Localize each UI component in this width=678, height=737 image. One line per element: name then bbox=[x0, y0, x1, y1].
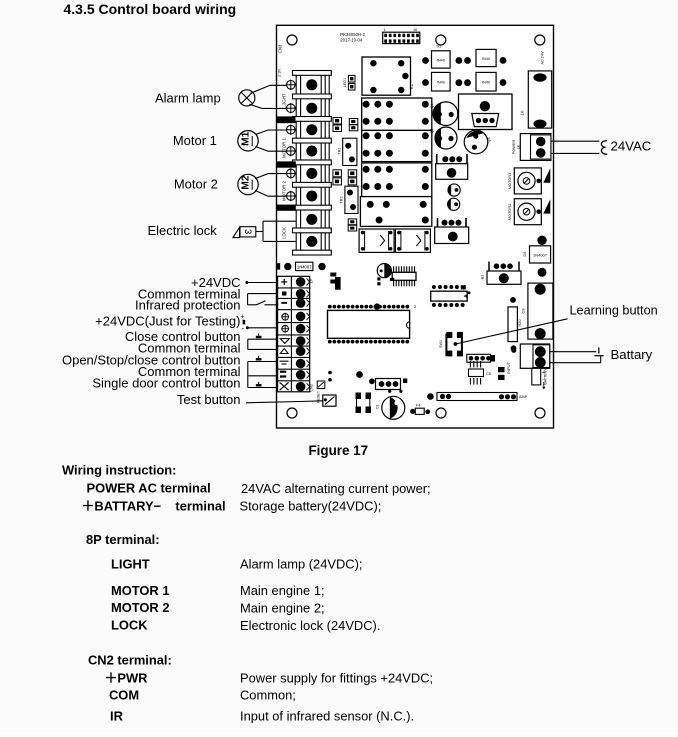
bridge diode D1 bbox=[422, 45, 450, 69]
wire lamp to terminal 1 bbox=[251, 85, 287, 93]
terminal 8P pin 3 screw bbox=[286, 125, 296, 135]
svg-text:C3: C3 bbox=[376, 405, 380, 410]
separator bar MOTOR2/LOCK bbox=[277, 205, 296, 211]
svg-text:TR2: TR2 bbox=[340, 196, 344, 203]
transistor Q6 bbox=[377, 264, 391, 286]
svg-text:POWER: POWER bbox=[511, 139, 516, 154]
svg-text:Input of infrared sensor (N.C.: Input of infrared sensor (N.C.). bbox=[240, 709, 414, 724]
terminal 8P pin 3 wire hole bbox=[306, 124, 317, 135]
svg-text:1P: 1P bbox=[308, 278, 313, 283]
wire single door button bbox=[248, 382, 278, 388]
svg-text:C5: C5 bbox=[486, 372, 491, 376]
svg-text:BATTERY: BATTERY bbox=[544, 368, 548, 385]
fuse F2 bbox=[523, 236, 551, 277]
terminal CN2 pin 10 bbox=[296, 382, 306, 392]
IC U2 bbox=[431, 285, 471, 307]
separator bar LIGHT/MOTOR1 bbox=[277, 116, 296, 123]
terminal 8P pin 8 wire hole bbox=[306, 236, 317, 247]
svg-text:＋BATTARY− terminal: ＋BATTARY− terminal bbox=[82, 498, 226, 513]
svg-text:B2: B2 bbox=[481, 275, 485, 280]
CN2 symbol screw2 bbox=[281, 325, 289, 333]
bridge diode D3 bbox=[422, 72, 450, 91]
terminal block 8P body bbox=[293, 71, 332, 256]
transistor Q2 bbox=[430, 127, 457, 149]
node 24VAC brace bbox=[601, 141, 607, 155]
terminal CN2 pin 9 bbox=[296, 370, 306, 380]
svg-text:+24VDC(Just for Testing): +24VDC(Just for Testing) bbox=[95, 314, 240, 329]
svg-text:Electric lock: Electric lock bbox=[147, 223, 217, 238]
jumper bar J1 bbox=[437, 393, 528, 401]
transistor Q5 bbox=[448, 198, 460, 210]
CN2 symbol com1 bbox=[282, 292, 286, 296]
transistor Q4 bbox=[448, 184, 460, 196]
LED pair D8 D9 bbox=[349, 119, 358, 131]
LED pair D14 D15 bbox=[348, 219, 357, 231]
mounting hole top-middle bbox=[436, 35, 446, 45]
wire M2 to terminal 5 bbox=[255, 174, 287, 179]
wire close control button bbox=[248, 334, 278, 350]
CN2 symbol close triangle bbox=[280, 339, 289, 344]
transistor Q3 bbox=[464, 130, 491, 154]
svg-text:8P terminal:: 8P terminal: bbox=[86, 532, 160, 547]
svg-text:Motor 1: Motor 1 bbox=[173, 133, 217, 148]
terminal CN2 pin 2 bbox=[296, 289, 306, 299]
svg-text:Power supply for fittings +24V: Power supply for fittings +24VDC; bbox=[240, 670, 433, 685]
bridge diode D2 bbox=[456, 49, 507, 66]
pin header CN7 bbox=[467, 354, 495, 362]
pin header CN4 bbox=[383, 28, 420, 44]
terminal CN2 pin 1 bbox=[296, 277, 306, 287]
CN2 symbol open triangle bbox=[280, 349, 288, 354]
learning button SW1 bbox=[439, 332, 463, 357]
svg-text:M1: M1 bbox=[241, 131, 252, 145]
svg-text:IN40: IN40 bbox=[437, 59, 445, 63]
PCB board outline bbox=[277, 25, 554, 428]
wire common terminal 1 bbox=[248, 294, 278, 305]
IC U4 SOIC bbox=[390, 266, 416, 286]
bridge diode D4 bbox=[456, 72, 507, 91]
LED pair D10 D11 bbox=[333, 170, 342, 185]
svg-text:CN2 terminal:: CN2 terminal: bbox=[88, 653, 172, 668]
wire M1 to terminal 3 bbox=[256, 130, 287, 135]
svg-text:POWER AC terminal: POWER AC terminal bbox=[87, 481, 211, 496]
svg-text:1: 1 bbox=[384, 28, 386, 32]
resistor TR1 bbox=[338, 138, 357, 165]
relay K3 body bbox=[362, 130, 432, 161]
svg-text:-: - bbox=[242, 324, 245, 333]
svg-text:Infrared protection: Infrared protection bbox=[135, 298, 241, 313]
svg-text:LK: LK bbox=[516, 144, 520, 149]
wire lamp to terminal 2 bbox=[250, 104, 287, 108]
terminal 8P pin 2 screw bbox=[286, 103, 296, 113]
transistor Q1 bbox=[430, 102, 458, 126]
pin header CN6 bbox=[376, 379, 408, 390]
svg-text:D6: D6 bbox=[523, 252, 527, 257]
svg-text:24VAC alternating current powe: 24VAC alternating current power; bbox=[241, 481, 431, 496]
svg-text:Alarm lamp (24VDC);: Alarm lamp (24VDC); bbox=[240, 556, 363, 571]
resistor F4 bbox=[410, 404, 430, 415]
relay pads K9 bbox=[356, 393, 372, 414]
wire learning button callout bbox=[454, 319, 568, 346]
alarm lamp symbol bbox=[239, 90, 255, 106]
svg-text:SW1: SW1 bbox=[439, 340, 443, 348]
svg-text:COM: COM bbox=[109, 688, 139, 703]
PCB part number text bbox=[340, 32, 365, 43]
svg-text:Q3: Q3 bbox=[487, 137, 491, 142]
svg-text:IN40: IN40 bbox=[482, 57, 490, 61]
terminal 8P pin 1 screw bbox=[286, 80, 296, 90]
terminal strip CN2 body bbox=[278, 276, 310, 392]
mounting hole bottom-middle bbox=[436, 408, 446, 418]
svg-text:Battary: Battary bbox=[611, 347, 653, 362]
terminal CN2 pin 6 bbox=[296, 336, 306, 346]
IC U5 bbox=[469, 361, 491, 385]
wire 24VAC lower bbox=[551, 152, 600, 154]
pad near battery bbox=[511, 348, 516, 353]
svg-text:Motor 2: Motor 2 bbox=[174, 177, 218, 192]
svg-text:Q1: Q1 bbox=[430, 103, 434, 108]
svg-text:LOCK: LOCK bbox=[111, 618, 148, 633]
test switch SW2 bbox=[317, 390, 337, 406]
trimmer VR2 bbox=[507, 199, 542, 225]
terminal 8P pin 6 wire hole bbox=[306, 191, 317, 202]
wire +24VDC bbox=[245, 281, 277, 284]
IC U1 DIP main controller bbox=[328, 303, 417, 343]
capacitor C9 pads bbox=[330, 273, 336, 284]
wire common terminal 3 bbox=[248, 375, 278, 377]
terminal 8P pin 6 screw bbox=[286, 191, 296, 201]
CN2 symbol screw1 bbox=[281, 313, 289, 321]
buzzer B1 bbox=[436, 154, 468, 179]
svg-text:C8: C8 bbox=[520, 308, 525, 314]
LED pair D12 D13 bbox=[348, 170, 357, 185]
svg-text:2: 2 bbox=[414, 305, 416, 309]
svg-text:TR1: TR1 bbox=[338, 147, 342, 154]
power terminal CN5 bbox=[511, 134, 551, 161]
CN2 symbol minus bbox=[281, 302, 287, 304]
svg-text:MOTOR 1: MOTOR 1 bbox=[111, 583, 170, 598]
relay K1 bbox=[362, 57, 414, 95]
terminal CN2 pin 5 bbox=[296, 324, 306, 334]
terminal 8P pin 4 screw bbox=[286, 146, 296, 156]
svg-text:MOTOR1: MOTOR1 bbox=[507, 173, 512, 190]
motor M2 symbol bbox=[238, 174, 258, 194]
relay K2 body bbox=[362, 98, 432, 130]
svg-text:K1: K1 bbox=[409, 83, 414, 89]
mounting hole top-right bbox=[535, 35, 545, 45]
wire battery negative bbox=[550, 356, 604, 363]
svg-text:M2: M2 bbox=[241, 175, 252, 189]
svg-text:Q2: Q2 bbox=[430, 128, 434, 133]
svg-text:F4: F4 bbox=[416, 404, 420, 408]
text wiring instruction block bbox=[62, 462, 433, 723]
terminal CN2 pin 4 bbox=[296, 312, 306, 322]
svg-text:2 1N: 2 1N bbox=[278, 69, 282, 77]
svg-text:＋PWR: ＋PWR bbox=[105, 670, 149, 685]
svg-text:16: 16 bbox=[413, 28, 417, 32]
wire +24VDC testing bbox=[241, 313, 278, 333]
separator bar MOTOR1/MOTOR2 bbox=[277, 161, 296, 167]
wire test button bbox=[246, 401, 323, 403]
potentiometer arrow VR2 bbox=[543, 199, 550, 214]
svg-text:Main engine 1;: Main engine 1; bbox=[240, 583, 325, 598]
svg-text:Figure 17: Figure 17 bbox=[309, 443, 369, 458]
svg-text:Storage battery(24VDC);: Storage battery(24VDC); bbox=[240, 499, 382, 514]
svg-text:MOTOR 2: MOTOR 2 bbox=[282, 180, 287, 200]
LED pair D6 D7 bbox=[333, 118, 342, 132]
relay footprint K6 bbox=[359, 229, 394, 252]
svg-text:R20: R20 bbox=[518, 320, 522, 327]
svg-text:AC 24V: AC 24V bbox=[541, 51, 545, 65]
component R21 bbox=[317, 381, 325, 389]
svg-text:L.3GHT: L.3GHT bbox=[282, 93, 287, 109]
pad D18 bbox=[369, 378, 375, 384]
wire M2 to terminal 6 bbox=[255, 190, 287, 196]
terminal 8P pin 2 wire hole bbox=[306, 103, 317, 114]
wire battery positive bbox=[550, 347, 599, 353]
capacitor pads C12 bbox=[498, 367, 505, 380]
wire common terminal 2 bbox=[248, 348, 278, 350]
svg-text:PK34050H-2: PK34050H-2 bbox=[340, 32, 365, 37]
CN2 symbol plus bbox=[281, 279, 287, 285]
connector B3 bbox=[481, 262, 522, 285]
svg-text:Alarm lamp: Alarm lamp bbox=[155, 91, 221, 106]
svg-text:IN40: IN40 bbox=[482, 81, 490, 85]
electric lock symbol bbox=[233, 227, 256, 238]
pad D17 bbox=[356, 371, 363, 378]
svg-text:LED1: LED1 bbox=[343, 78, 347, 88]
battery terminal CN8 bbox=[520, 344, 549, 368]
resistor TR2 bbox=[340, 186, 359, 213]
mounting hole bottom-right bbox=[535, 408, 545, 418]
svg-text:Main engine 2;: Main engine 2; bbox=[240, 600, 325, 615]
svg-text:AMP: AMP bbox=[519, 395, 528, 399]
svg-text:24VAC: 24VAC bbox=[611, 139, 652, 154]
svg-text:IN40: IN40 bbox=[437, 81, 445, 85]
mounting hole top-left bbox=[287, 35, 297, 45]
svg-text:1N4007: 1N4007 bbox=[297, 265, 312, 270]
svg-text:MOTOR2: MOTOR2 bbox=[507, 204, 512, 221]
svg-text:4.3.5 Control board wiring: 4.3.5 Control board wiring bbox=[64, 1, 237, 17]
svg-text:1N4007: 1N4007 bbox=[533, 253, 548, 258]
relay footprint K7 bbox=[395, 229, 430, 252]
wire 24VAC upper bbox=[551, 140, 600, 142]
relay K5 body bbox=[360, 197, 431, 227]
terminal 8P pin 4 wire hole bbox=[306, 146, 317, 157]
terminal 8P pin 7 wire hole bbox=[306, 214, 317, 225]
pads above buzzer bbox=[388, 390, 402, 393]
svg-text:+: + bbox=[241, 313, 245, 320]
svg-text:Learning button: Learning button bbox=[570, 304, 658, 318]
svg-text:CN2: CN2 bbox=[308, 384, 313, 392]
CN2 symbol osc bbox=[280, 361, 289, 364]
svg-text:2017-10-04: 2017-10-04 bbox=[340, 37, 363, 42]
potentiometer arrow VR1 bbox=[543, 168, 550, 183]
svg-text:INPUT: INPUT bbox=[506, 361, 511, 374]
wire lock to terminals 7-8 bbox=[256, 221, 296, 241]
battery polarity block bbox=[532, 368, 548, 390]
CN2 symbol X bbox=[280, 382, 289, 390]
trimmer VR1 bbox=[507, 168, 542, 194]
svg-text:CN3: CN3 bbox=[278, 44, 283, 53]
resistor R20 bbox=[508, 297, 522, 351]
svg-text:MOTOR 1: MOTOR 1 bbox=[282, 137, 287, 157]
pad K8 bbox=[427, 393, 434, 400]
buzzer B2 bbox=[435, 218, 469, 244]
capacitor C8 bbox=[520, 283, 553, 339]
terminal CN2 pin 7 bbox=[296, 346, 306, 356]
terminal 8P pin 5 screw bbox=[286, 168, 296, 178]
pads C10 bbox=[328, 371, 332, 382]
svg-text:LOCK: LOCK bbox=[282, 227, 287, 239]
motor M1 symbol bbox=[238, 131, 258, 151]
heatsink U3 bbox=[459, 94, 513, 130]
terminal CN2 pin 3 bbox=[296, 298, 306, 308]
terminal 8P pin 1 wire hole bbox=[306, 79, 317, 90]
svg-text:LIGHT: LIGHT bbox=[111, 556, 150, 571]
relay K4 body bbox=[362, 163, 432, 197]
terminal CN2 pin 8 bbox=[296, 359, 306, 369]
svg-text:Single door control button: Single door control button bbox=[92, 376, 240, 391]
svg-text:RESET: RESET bbox=[317, 390, 321, 403]
svg-text:Common;: Common; bbox=[240, 688, 296, 703]
pad strip bbox=[335, 277, 341, 290]
wire infrared protection NC contact bbox=[248, 301, 278, 305]
svg-text:3: 3 bbox=[242, 229, 253, 234]
diode D16 1N4007 bbox=[277, 262, 326, 270]
fuse F1 bbox=[528, 71, 551, 128]
svg-text:MOTOR 2: MOTOR 2 bbox=[111, 600, 170, 615]
svg-text:Electronic lock (24VDC).: Electronic lock (24VDC). bbox=[240, 618, 380, 633]
svg-text:Test button: Test button bbox=[177, 392, 241, 407]
mounting hole bottom-left bbox=[287, 408, 297, 418]
svg-text:D1: D1 bbox=[437, 45, 442, 49]
svg-text:IR: IR bbox=[110, 709, 124, 724]
LED D5 pads bbox=[343, 75, 355, 90]
wire M1 to terminal 4 bbox=[256, 147, 287, 152]
capacitor C11 bbox=[376, 396, 405, 419]
CN2 symbol single bbox=[280, 371, 286, 378]
wire open/stop/close button bbox=[248, 356, 278, 388]
terminal 8P pin 5 wire hole bbox=[306, 168, 317, 179]
svg-text:1A: 1A bbox=[520, 110, 525, 115]
svg-text:Wiring instruction:: Wiring instruction: bbox=[62, 462, 176, 477]
